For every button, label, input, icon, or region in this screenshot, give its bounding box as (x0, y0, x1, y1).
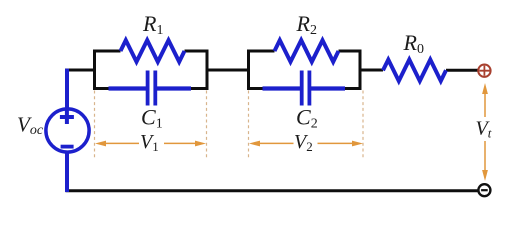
wire box2 top-right segment (339, 50, 362, 53)
arrowhead V2 right (352, 141, 363, 147)
wire box2 to R0 (359, 69, 384, 72)
voltage source minus sign (61, 145, 74, 149)
label V1 background (139, 134, 164, 152)
capacitor C1 right lead (157, 86, 191, 90)
wire bottom rail (66, 189, 478, 192)
positive terminal plus sign (479, 66, 489, 76)
arrowhead V1 left (95, 141, 106, 147)
arrowhead V2 left (249, 141, 260, 147)
wire R0 to positive terminal (446, 69, 478, 72)
capacitor C2 right plate (307, 71, 311, 106)
resistor R0 (383, 60, 446, 81)
voltage source plus sign (60, 110, 74, 124)
wire box1 top-left segment (93, 50, 121, 53)
node box2 right edge (359, 50, 362, 91)
dimension line Vt (484, 92, 486, 172)
capacitor C1 left lead (109, 86, 147, 90)
node box2 left edge (247, 50, 250, 91)
capacitor C1 right plate (153, 71, 157, 106)
wire box2 bottom-left segment (247, 87, 266, 90)
arrowhead Vt bottom (482, 170, 488, 181)
negative terminal (478, 184, 490, 196)
arrowhead Vt top (482, 83, 488, 94)
arrowhead V1 right (195, 141, 206, 147)
positive terminal (478, 65, 490, 77)
dashed extension line at box2 right (362, 91, 364, 160)
wire box1 bottom-right segment (189, 87, 209, 90)
voltage source Voc circle (46, 109, 89, 152)
wire box1 top-right segment (185, 50, 209, 53)
wire between box1 and box2 (206, 69, 251, 72)
wire box2 bottom-right segment (343, 87, 362, 90)
wire source bottom lead (65, 151, 69, 192)
negative terminal minus sign (481, 189, 488, 191)
capacitor C2 right lead (311, 86, 345, 90)
dashed extension line at box1 right (206, 91, 208, 160)
dimension line V1 (104, 142, 197, 144)
label V2 background (294, 134, 318, 152)
capacitor C1 left plate (146, 71, 150, 106)
dimension line V2 (258, 142, 354, 144)
capacitor C2 left lead (263, 86, 301, 90)
capacitor C2 left plate (300, 71, 304, 106)
label Vt background (474, 117, 496, 141)
wire top-left from source to box1 (65, 69, 96, 72)
resistor R1 (121, 40, 185, 62)
node box1 right edge (206, 50, 209, 91)
resistor R2 (275, 40, 339, 62)
dashed extension line at box1 left (94, 91, 96, 160)
wire box2 top-left segment (247, 50, 275, 53)
wire source top lead (65, 69, 69, 110)
node box1 left edge (93, 50, 96, 91)
dashed extension line at box2 left (248, 91, 250, 160)
wire box1 bottom-left segment (93, 87, 112, 90)
